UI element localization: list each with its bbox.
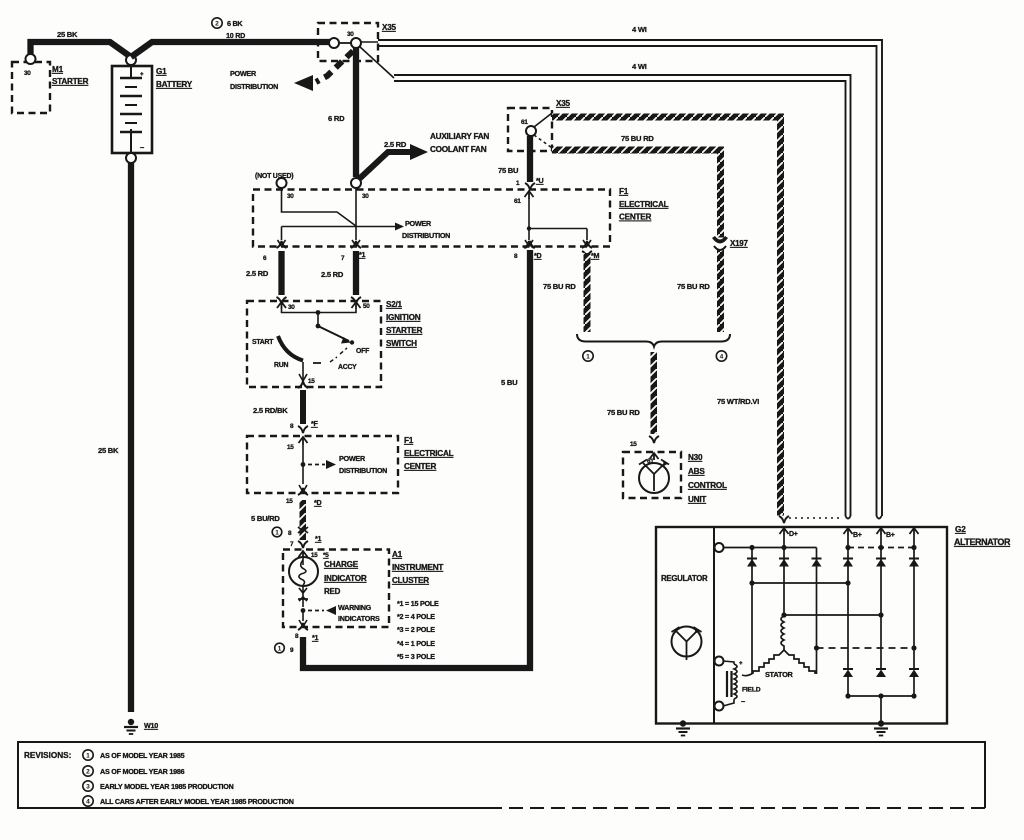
svg-text:G1: G1 xyxy=(156,67,167,76)
svg-text:ACCY: ACCY xyxy=(338,364,357,371)
svg-text:75 BU RD: 75 BU RD xyxy=(543,282,576,291)
svg-text:6 BK: 6 BK xyxy=(227,19,243,28)
svg-text:75 BU RD: 75 BU RD xyxy=(621,134,654,143)
svg-text:5 BU: 5 BU xyxy=(501,378,518,387)
alternator top terminal B+ right xyxy=(877,516,882,519)
diode rail horizontal xyxy=(723,547,817,549)
revision marker 1 xyxy=(583,351,593,361)
svg-text:2.5 RD/BK: 2.5 RD/BK xyxy=(253,406,288,415)
svg-text:2.5 RD: 2.5 RD xyxy=(321,270,344,279)
svg-text:FIELD: FIELD xyxy=(742,687,761,694)
F1 lower internal xyxy=(302,445,304,484)
svg-text:B+: B+ xyxy=(853,532,862,539)
svg-text:W10: W10 xyxy=(144,721,158,730)
svg-text:4 WI: 4 WI xyxy=(632,62,647,71)
svg-text:WARNING: WARNING xyxy=(338,603,372,612)
battery terminal bottom xyxy=(126,153,136,163)
svg-text:61: 61 xyxy=(521,119,528,126)
svg-text:4: 4 xyxy=(86,799,90,806)
connector pin 9 revision 1 xyxy=(275,643,285,653)
wire 6 BK / 10 RD battery to X35 xyxy=(131,42,330,57)
svg-text:30: 30 xyxy=(24,70,31,77)
svg-text:STATOR: STATOR xyxy=(765,670,794,679)
terminal cup at N30 xyxy=(649,436,659,443)
svg-text:−: − xyxy=(741,697,745,706)
svg-text:REVISIONS:: REVISIONS: xyxy=(24,751,71,760)
terminal cup 5 BU at F1 xyxy=(525,241,535,248)
wire to 4WI upper xyxy=(360,41,378,43)
phase row 3 dashed xyxy=(817,647,915,649)
ABS control unit N30 box xyxy=(623,452,681,498)
ground W10 xyxy=(128,719,134,725)
connector X35 terminal b xyxy=(339,42,351,44)
switch START arc xyxy=(278,336,303,361)
wire 4 WI upper xyxy=(378,40,882,516)
svg-text:*3 = 2 POLE: *3 = 2 POLE xyxy=(397,625,435,634)
svg-text:RUN: RUN xyxy=(274,362,288,369)
svg-text:75 BU RD: 75 BU RD xyxy=(607,408,640,417)
svg-text:*1 = 15 POLE: *1 = 15 POLE xyxy=(397,599,439,608)
svg-text:D+: D+ xyxy=(789,531,798,538)
terminal cup 75 BU at F1 xyxy=(525,183,535,190)
auxiliary fan arrow 2.5 RD xyxy=(358,152,414,180)
svg-text:REGULATOR: REGULATOR xyxy=(661,574,708,583)
svg-text:15: 15 xyxy=(311,552,318,559)
svg-text:4 WI: 4 WI xyxy=(632,25,647,34)
svg-text:UNIT: UNIT xyxy=(688,495,706,504)
svg-text:ABS: ABS xyxy=(688,467,705,476)
switch terminal 15 xyxy=(302,362,304,380)
regulator terminal to diodes xyxy=(715,543,724,552)
revision note 4 xyxy=(83,796,93,806)
wire 75 BU RD hatched second xyxy=(552,147,724,154)
wire 25 BK starter to battery xyxy=(31,42,132,57)
svg-text:*D: *D xyxy=(314,498,322,507)
battery terminal top xyxy=(126,55,136,65)
svg-text:*M: *M xyxy=(591,251,600,260)
battery G1 plates xyxy=(130,66,132,78)
diode string R3 xyxy=(913,535,915,669)
revision note 2 xyxy=(83,766,93,776)
svg-text:CHARGE: CHARGE xyxy=(324,560,359,569)
svg-text:M1: M1 xyxy=(52,65,64,74)
diode string L1 xyxy=(751,548,753,674)
field winding xyxy=(715,657,724,666)
switch terminal 50 xyxy=(351,297,361,304)
wire 25 BK battery to ground W10 xyxy=(128,163,134,712)
svg-text:G2: G2 xyxy=(955,524,966,534)
svg-text:30: 30 xyxy=(288,304,295,311)
svg-text:2.5 RD: 2.5 RD xyxy=(246,269,269,278)
diode string L2 xyxy=(783,535,785,616)
svg-text:75 WT/RD.VI: 75 WT/RD.VI xyxy=(717,397,759,406)
connector X35 terminal a xyxy=(329,38,339,48)
svg-text:S2/1: S2/1 xyxy=(386,300,403,309)
svg-text:*1: *1 xyxy=(315,534,322,543)
svg-text:ELECTRICAL: ELECTRICAL xyxy=(619,200,669,209)
svg-text:AS OF MODEL YEAR 1986: AS OF MODEL YEAR 1986 xyxy=(100,767,185,776)
svg-text:(NOT USED): (NOT USED) xyxy=(255,173,293,180)
F1 internal bus left xyxy=(282,188,357,226)
ignition starter switch S2/1 box xyxy=(247,301,381,387)
svg-text:30: 30 xyxy=(287,193,294,200)
revision note 1 xyxy=(83,750,93,760)
svg-text:*5: *5 xyxy=(323,552,329,559)
wire 2.5 RD left xyxy=(278,251,284,295)
svg-text:−: − xyxy=(140,143,144,152)
svg-text:75 BU RD: 75 BU RD xyxy=(677,282,710,291)
svg-text:SWITCH: SWITCH xyxy=(386,339,417,348)
svg-text:ALTERNATOR: ALTERNATOR xyxy=(954,537,1011,547)
svg-text:RED: RED xyxy=(324,587,341,596)
alternator top terminal D+ xyxy=(779,516,789,523)
cluster connector marks xyxy=(299,588,307,593)
svg-text:CONTROL: CONTROL xyxy=(688,481,727,490)
cluster bottom terminal xyxy=(302,611,304,622)
connector X35 box xyxy=(318,23,378,61)
cluster terminal 15 *5 xyxy=(299,551,308,557)
wire 6 RD xyxy=(353,48,359,177)
svg-text:61: 61 xyxy=(514,198,521,205)
svg-text:X197: X197 xyxy=(730,239,748,248)
svg-text:*D: *D xyxy=(534,251,542,260)
revision marker 4 xyxy=(716,351,726,361)
wire 5 BU-RD hatched xyxy=(300,500,307,540)
bottom rail xyxy=(848,695,914,697)
negative diodes bottom xyxy=(843,668,853,670)
svg-text:2: 2 xyxy=(86,769,90,776)
svg-text:15: 15 xyxy=(308,378,315,385)
regulator transistor xyxy=(672,627,702,657)
svg-text:STARTER: STARTER xyxy=(386,326,423,335)
electrical center F1 box xyxy=(253,190,610,247)
svg-text:1: 1 xyxy=(86,753,90,760)
svg-text:POWER: POWER xyxy=(339,454,366,463)
wire cluster to alternator 5 BU xyxy=(303,250,530,668)
svg-text:75 BU: 75 BU xyxy=(498,166,519,175)
svg-text:*2 = 4 POLE: *2 = 4 POLE xyxy=(397,612,435,621)
svg-text:F1: F1 xyxy=(619,187,629,196)
svg-text:DISTRIBUTION: DISTRIBUTION xyxy=(402,231,450,240)
brace joining revision wires xyxy=(577,334,730,347)
diode string R2 xyxy=(880,535,882,669)
svg-text:BATTERY: BATTERY xyxy=(156,80,193,89)
battery G1 box xyxy=(112,66,152,153)
wire to 4WI lower xyxy=(359,46,394,78)
alternator top terminal B+ left xyxy=(846,516,851,519)
instrument cluster A1 box xyxy=(283,550,389,628)
svg-text:CLUSTER: CLUSTER xyxy=(392,576,429,585)
svg-text:*4 = 1 POLE: *4 = 1 POLE xyxy=(397,639,435,648)
svg-text:X35: X35 xyxy=(556,99,571,108)
svg-text:START: START xyxy=(252,339,274,346)
wire 4 WI lower xyxy=(394,75,851,516)
svg-text:1: 1 xyxy=(586,354,590,361)
warning indicators branch xyxy=(301,608,306,613)
connector X35-2 box xyxy=(508,108,552,151)
svg-text:5 BU/RD: 5 BU/RD xyxy=(251,514,280,523)
svg-text:IGNITION: IGNITION xyxy=(386,313,421,322)
alternator top terminal right inner xyxy=(910,528,919,534)
alternator G2 box xyxy=(656,527,947,724)
stator windings xyxy=(781,616,784,650)
svg-text:15: 15 xyxy=(287,444,294,451)
svg-text:AS OF MODEL YEAR 1985: AS OF MODEL YEAR 1985 xyxy=(100,751,185,760)
svg-text:A1: A1 xyxy=(392,550,403,559)
electrical center F1 lower box xyxy=(247,436,398,493)
svg-text:OFF: OFF xyxy=(356,348,369,355)
wire 2.5 RD-BK xyxy=(300,390,306,424)
connector X197 xyxy=(712,236,728,244)
svg-text:1: 1 xyxy=(275,530,279,537)
svg-text:15: 15 xyxy=(286,498,293,505)
svg-text:INSTRUMENT: INSTRUMENT xyxy=(392,563,443,572)
label 2 6BK 10RD xyxy=(212,18,222,28)
svg-text:INDICATORS: INDICATORS xyxy=(338,614,380,623)
starter terminal 30 xyxy=(26,54,36,64)
svg-text:30: 30 xyxy=(347,31,354,38)
svg-text:15: 15 xyxy=(630,441,637,448)
phase row 1 xyxy=(752,582,848,584)
svg-text:30: 30 xyxy=(362,193,369,200)
F1 internal bus right xyxy=(525,191,534,197)
diode string R1 xyxy=(847,535,849,669)
svg-text:STARTER: STARTER xyxy=(52,77,89,86)
svg-text:*1: *1 xyxy=(359,250,366,259)
wire 2.5 RD right xyxy=(353,251,359,295)
regulator divider xyxy=(713,527,715,724)
svg-text:*1: *1 xyxy=(312,633,319,642)
svg-text:*5 = 3 POLE: *5 = 3 POLE xyxy=(397,652,435,661)
svg-text:2: 2 xyxy=(215,21,219,28)
connector X35-2 terminal 61 xyxy=(526,126,536,136)
wire 75 BU RD hatched from terminal M xyxy=(582,251,592,258)
svg-text:25 BK: 25 BK xyxy=(98,446,119,455)
svg-text:ELECTRICAL: ELECTRICAL xyxy=(404,449,454,458)
revision note 3 xyxy=(83,781,93,791)
alternator ground right xyxy=(880,696,882,724)
svg-text:EARLY MODEL YEAR 1985 PRODUCTI: EARLY MODEL YEAR 1985 PRODUCTION xyxy=(100,782,234,791)
svg-text:INDICATOR: INDICATOR xyxy=(324,574,367,583)
svg-text:DISTRIBUTION: DISTRIBUTION xyxy=(339,466,387,475)
svg-text:F1: F1 xyxy=(404,436,414,445)
svg-text:25 BK: 25 BK xyxy=(57,30,78,39)
svg-text:*F: *F xyxy=(311,419,319,428)
svg-text:CENTER: CENTER xyxy=(619,213,651,222)
svg-text:B+: B+ xyxy=(886,532,895,539)
svg-text:ALL CARS AFTER EARLY MODEL YEA: ALL CARS AFTER EARLY MODEL YEAR 1985 PRO… xyxy=(100,797,294,806)
svg-text:COOLANT FAN: COOLANT FAN xyxy=(430,145,487,154)
wire 75 BU RD hatched to N30 xyxy=(651,352,658,434)
svg-text:CENTER: CENTER xyxy=(404,462,436,471)
alternator ground left xyxy=(680,720,686,726)
svg-text:3: 3 xyxy=(86,784,90,791)
svg-text:50: 50 xyxy=(363,303,370,310)
dotted revision line at top edge xyxy=(789,517,842,519)
connector pin 8 revision 1 xyxy=(272,527,282,537)
svg-text:POWER: POWER xyxy=(230,69,257,78)
wire 75 BU xyxy=(527,136,533,182)
svg-text:*U: *U xyxy=(536,176,544,185)
svg-text:N30: N30 xyxy=(688,453,703,462)
revisions box xyxy=(18,742,985,808)
terminal 30 from 6 RD xyxy=(351,178,361,188)
charge indicator lamp xyxy=(302,557,304,565)
svg-text:10 RD: 10 RD xyxy=(226,31,245,40)
svg-text:DISTRIBUTION: DISTRIBUTION xyxy=(230,82,278,91)
switch rotor arm xyxy=(318,326,349,341)
phase row 2 xyxy=(784,614,881,616)
svg-text:4: 4 xyxy=(720,354,724,361)
svg-text:X35: X35 xyxy=(382,23,397,32)
svg-text:POWER: POWER xyxy=(405,219,432,228)
switch internal wiring xyxy=(282,309,357,313)
switch terminal 30 xyxy=(277,297,287,304)
power distribution arrow dashed xyxy=(316,51,353,82)
svg-text:1: 1 xyxy=(278,646,282,653)
svg-text:AUXILIARY FAN: AUXILIARY FAN xyxy=(430,132,489,141)
diode string L3 xyxy=(816,556,818,674)
F1 lower terminal 15 top xyxy=(299,437,308,443)
ABS control unit N30 symbol xyxy=(639,463,669,493)
wire 75 BU RD hatched top xyxy=(552,114,783,121)
starter M1 box xyxy=(12,62,50,113)
svg-text:2.5 RD: 2.5 RD xyxy=(384,140,407,149)
svg-text:6 RD: 6 RD xyxy=(328,114,345,123)
